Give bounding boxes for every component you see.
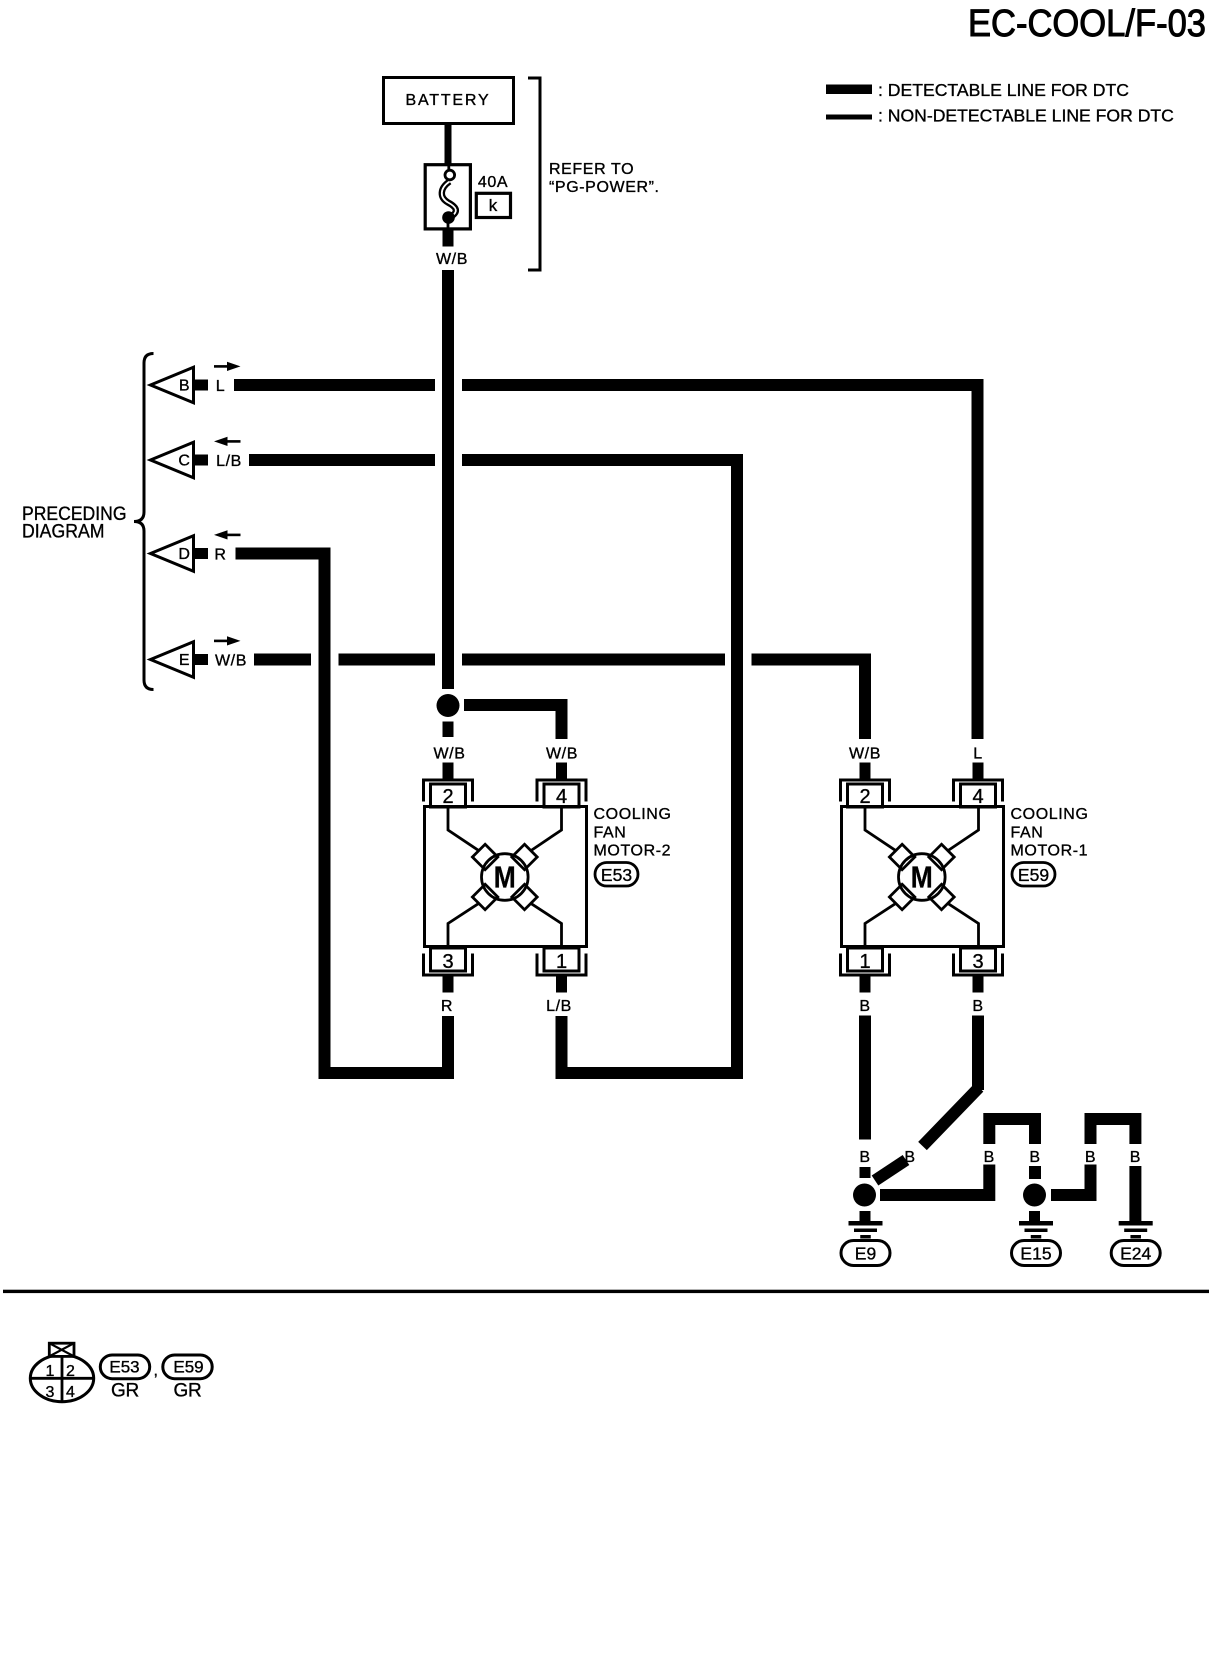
- svg-text:DIAGRAM: DIAGRAM: [22, 522, 105, 543]
- svg-text:GR: GR: [174, 1381, 202, 1402]
- svg-text:4: 4: [972, 786, 983, 808]
- svg-text:M: M: [494, 860, 516, 895]
- svg-text:B: B: [859, 1149, 870, 1166]
- svg-text:W/B: W/B: [215, 653, 247, 670]
- svg-text:FAN: FAN: [1011, 825, 1044, 842]
- svg-text:E59: E59: [173, 1358, 203, 1377]
- svg-text:B: B: [179, 378, 190, 395]
- svg-text:,: ,: [154, 1363, 158, 1380]
- svg-text:FAN: FAN: [594, 825, 627, 842]
- svg-text:2: 2: [66, 1363, 75, 1380]
- svg-text:B: B: [1029, 1149, 1040, 1166]
- svg-text:3: 3: [972, 951, 983, 973]
- svg-text:COOLING: COOLING: [594, 806, 672, 823]
- svg-text:1: 1: [46, 1363, 55, 1380]
- svg-text:2: 2: [442, 786, 453, 808]
- svg-text:BATTERY: BATTERY: [406, 92, 491, 109]
- svg-text:R: R: [214, 547, 226, 564]
- svg-text:3: 3: [46, 1384, 55, 1401]
- svg-text:: NON-DETECTABLE LINE FOR DTC: : NON-DETECTABLE LINE FOR DTC: [878, 106, 1174, 126]
- svg-text:E15: E15: [1020, 1244, 1051, 1264]
- svg-text:4: 4: [66, 1384, 75, 1401]
- svg-text:L: L: [973, 746, 983, 763]
- svg-text:L: L: [216, 378, 226, 395]
- svg-text:D: D: [178, 546, 190, 563]
- svg-text:: DETECTABLE LINE FOR DTC: : DETECTABLE LINE FOR DTC: [878, 80, 1129, 100]
- svg-text:B: B: [1085, 1149, 1096, 1166]
- svg-text:40A: 40A: [478, 174, 508, 191]
- svg-text:4: 4: [556, 786, 567, 808]
- svg-text:E24: E24: [1120, 1244, 1151, 1264]
- svg-text:R: R: [441, 998, 453, 1015]
- svg-text:B: B: [859, 998, 870, 1015]
- svg-text:B: B: [984, 1149, 995, 1166]
- svg-text:E53: E53: [109, 1358, 139, 1377]
- svg-text:W/B: W/B: [436, 251, 468, 268]
- svg-text:L/B: L/B: [546, 998, 572, 1015]
- svg-text:k: k: [489, 196, 498, 215]
- svg-text:1: 1: [859, 951, 870, 973]
- svg-text:EC-COOL/F-03: EC-COOL/F-03: [968, 3, 1206, 45]
- svg-text:REFER TO: REFER TO: [549, 161, 634, 178]
- svg-text:L/B: L/B: [216, 453, 242, 470]
- svg-text:C: C: [178, 453, 190, 470]
- svg-text:B: B: [972, 998, 983, 1015]
- svg-text:1: 1: [556, 951, 567, 973]
- svg-text:MOTOR-1: MOTOR-1: [1011, 843, 1089, 860]
- svg-text:E59: E59: [1018, 865, 1049, 885]
- svg-text:2: 2: [859, 786, 870, 808]
- svg-text:“PG-POWER”.: “PG-POWER”.: [549, 179, 660, 196]
- svg-text:E9: E9: [855, 1244, 876, 1264]
- svg-text:3: 3: [442, 951, 453, 973]
- svg-text:E53: E53: [601, 865, 632, 885]
- svg-text:M: M: [911, 860, 933, 895]
- svg-text:COOLING: COOLING: [1011, 806, 1089, 823]
- svg-text:W/B: W/B: [849, 746, 881, 763]
- svg-text:E: E: [179, 652, 190, 669]
- svg-text:GR: GR: [111, 1381, 139, 1402]
- svg-text:W/B: W/B: [546, 746, 578, 763]
- svg-text:W/B: W/B: [433, 746, 465, 763]
- svg-text:MOTOR-2: MOTOR-2: [594, 843, 672, 860]
- svg-text:B: B: [1130, 1149, 1141, 1166]
